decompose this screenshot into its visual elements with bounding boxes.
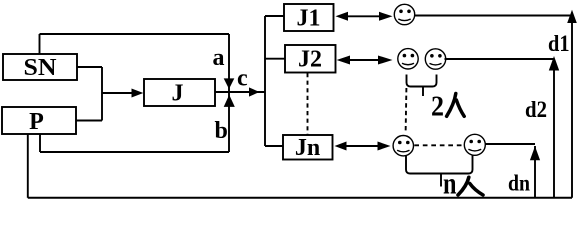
box Jn xyxy=(283,135,333,160)
wire dn vertical xyxy=(534,146,536,198)
arrowhead c output xyxy=(249,87,260,96)
svg-text:J1: J1 xyxy=(297,5,321,31)
svg-text:a: a xyxy=(213,45,225,71)
arrowhead row1 left xyxy=(336,12,349,21)
wire row2 to d2 xyxy=(445,58,555,60)
svg-text:n: n xyxy=(443,165,457,200)
wire dashed J2 to Jn xyxy=(307,73,309,135)
arrowhead into J xyxy=(132,89,144,98)
svg-text:b: b xyxy=(215,118,228,144)
arrowhead dn up xyxy=(530,146,540,160)
arrowhead d2 up xyxy=(549,56,559,71)
smiley row n second xyxy=(464,134,485,155)
svg-text:J2: J2 xyxy=(298,47,322,73)
smiley row n first xyxy=(393,136,413,156)
arrowhead row2 left xyxy=(337,56,350,65)
svg-text:SN: SN xyxy=(24,55,58,81)
smiley row2 first xyxy=(398,49,418,69)
arrowhead d1 up xyxy=(567,10,577,23)
smiley row2 second xyxy=(425,49,445,69)
wire SN right stub xyxy=(77,66,102,68)
svg-text:Jn: Jn xyxy=(295,135,320,161)
wire stub to Jn xyxy=(265,145,283,147)
box J xyxy=(144,79,215,106)
arrowhead b (up into node c) xyxy=(224,95,235,107)
wire J output to node c xyxy=(216,91,266,93)
smiley row1 xyxy=(394,4,414,24)
wire dashed between row n servers xyxy=(414,144,463,146)
box J2 xyxy=(285,45,336,73)
svg-text:d2: d2 xyxy=(525,97,547,122)
brace under row2 servers xyxy=(407,75,437,87)
wire dashed row2 to row n smiley xyxy=(405,88,408,134)
wire b vertical up to node c xyxy=(228,92,230,152)
wire double arrow J2 row xyxy=(349,59,379,61)
wire d1 vertical xyxy=(571,16,573,198)
wire row n to dn xyxy=(486,143,536,145)
brace under row n servers xyxy=(406,155,473,174)
wire J input xyxy=(102,92,134,94)
wire double arrow Jn row xyxy=(346,145,378,147)
box SN xyxy=(3,54,77,80)
svg-text:d1: d1 xyxy=(548,31,570,56)
arrowhead row1 right xyxy=(379,12,393,21)
wire row1 to d1 xyxy=(415,15,572,17)
box P xyxy=(2,107,76,134)
wire P b-stub xyxy=(39,134,41,152)
wire a vertical down to node c xyxy=(228,34,230,92)
wire P right stub xyxy=(76,120,102,122)
box J1 xyxy=(284,4,334,31)
wire stub to J1 xyxy=(265,15,284,17)
wire b bottom horizontal xyxy=(40,151,229,153)
wire branch bracket vertical xyxy=(264,16,266,146)
arrowhead a (down into node c) xyxy=(224,78,235,89)
svg-text:2: 2 xyxy=(431,92,444,123)
wire merge vertical xyxy=(101,67,103,121)
wire bottom feedback vertical from P xyxy=(27,134,29,198)
svg-text:c: c xyxy=(237,66,248,92)
arrowhead rown right xyxy=(378,142,391,151)
svg-text:dn: dn xyxy=(508,171,530,196)
arrowhead rown left xyxy=(335,142,347,151)
wire double arrow J1 row xyxy=(347,15,380,17)
wire a top horizontal xyxy=(40,33,230,35)
svg-text:P: P xyxy=(29,109,44,135)
wire bottom feedback horizontal xyxy=(28,197,572,199)
wire SN top stub xyxy=(39,34,41,54)
wire d2 vertical xyxy=(553,59,555,198)
arrowhead row2 right xyxy=(378,56,393,65)
wire stub to J2 xyxy=(265,58,285,60)
svg-text:J: J xyxy=(172,80,184,106)
